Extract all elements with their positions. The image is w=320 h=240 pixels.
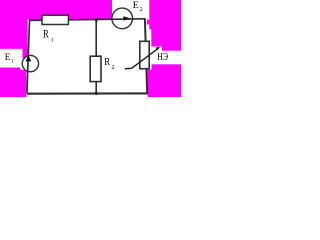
svg-text:1: 1 [11, 59, 14, 65]
svg-text:R: R [43, 28, 49, 40]
svg-text:2: 2 [140, 7, 143, 13]
svg-text:2: 2 [112, 65, 115, 71]
svg-text:E: E [5, 52, 11, 62]
svg-text:НЭ: НЭ [157, 52, 168, 63]
svg-text:R: R [104, 57, 110, 68]
svg-text:1: 1 [51, 38, 54, 44]
svg-text:E: E [133, 0, 139, 11]
